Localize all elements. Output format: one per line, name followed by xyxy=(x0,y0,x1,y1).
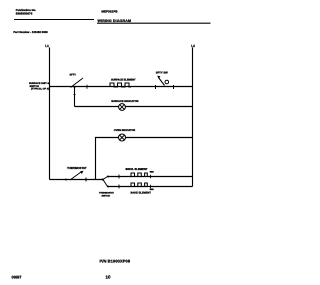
svg-text:SFTY: SFTY xyxy=(70,74,77,77)
terminal tick bake xyxy=(118,185,120,189)
svg-text:RED: RED xyxy=(150,170,155,173)
tick bake right xyxy=(150,185,152,188)
terminal dot broil xyxy=(107,176,109,178)
resistor: bake element xyxy=(131,183,147,187)
power rail L1 xyxy=(49,48,51,180)
svg-text:L1: L1 xyxy=(45,44,49,48)
wire: fork to broil row xyxy=(103,177,108,180)
wire: thermostat row xyxy=(50,179,104,181)
surface switch left pole xyxy=(71,78,88,89)
terminal dot bake xyxy=(107,186,109,188)
wire: bake row xyxy=(108,186,193,188)
tick broil right xyxy=(150,175,152,178)
resistor: broil element xyxy=(131,173,147,177)
svg-text:OVEN INDICATOR: OVEN INDICATOR xyxy=(114,129,136,132)
wire: broil row xyxy=(108,176,193,178)
wire: indicator row xyxy=(75,106,193,108)
svg-text:THERMOSTAT: THERMOSTAT xyxy=(99,192,115,195)
surface switch right pole xyxy=(156,76,174,89)
indicator lamp: surface xyxy=(119,104,126,111)
svg-text:SWITCH: SWITCH xyxy=(102,194,111,197)
svg-text:P/N B1900XP08: P/N B1900XP08 xyxy=(100,258,131,263)
junction: oven drop meets thermostat row xyxy=(102,178,104,180)
thermostat switch xyxy=(65,171,86,182)
svg-text:SURFACE INDICATOR: SURFACE INDICATOR xyxy=(111,100,138,103)
svg-text:THERMOSTAT: THERMOSTAT xyxy=(67,166,87,170)
svg-text:L2: L2 xyxy=(191,44,195,48)
svg-text:BAKE ELEMENT: BAKE ELEMENT xyxy=(131,192,152,195)
svg-text:5995350676: 5995350676 xyxy=(16,11,33,15)
power rail L2 xyxy=(192,48,194,187)
svg-text:(TYPICAL OF 4): (TYPICAL OF 4) xyxy=(31,88,49,91)
svg-text:MEF302PB: MEF302PB xyxy=(101,10,118,14)
resistor: surface element xyxy=(110,83,131,87)
label: surface unit note xyxy=(29,82,49,90)
wire: drop to indicator row xyxy=(74,87,76,107)
terminal tick broil xyxy=(118,175,120,179)
svg-text:BROIL ELEMENT: BROIL ELEMENT xyxy=(126,168,148,171)
wire: top row L1 to L2 xyxy=(50,86,193,88)
svg-text:10: 10 xyxy=(106,274,111,279)
svg-text:SFTY SW: SFTY SW xyxy=(156,71,168,74)
header rule right xyxy=(97,22,211,24)
svg-text:RED: RED xyxy=(150,188,155,191)
wire: oven indicator row xyxy=(96,138,193,180)
terminal tick below junction xyxy=(74,94,76,96)
svg-text:SURFACE ELEMENT: SURFACE ELEMENT xyxy=(111,79,136,82)
svg-text:Part Number - 191062 0008: Part Number - 191062 0008 xyxy=(13,31,48,34)
wire: fork to bake row xyxy=(103,180,108,187)
svg-text:09/97: 09/97 xyxy=(12,274,23,279)
svg-text:WIRING DIAGRAM: WIRING DIAGRAM xyxy=(98,19,132,23)
indicator lamp: oven xyxy=(119,134,126,141)
thermostat switch note xyxy=(99,192,115,198)
junction: drop from top row xyxy=(74,86,76,88)
header rule left xyxy=(14,19,94,21)
